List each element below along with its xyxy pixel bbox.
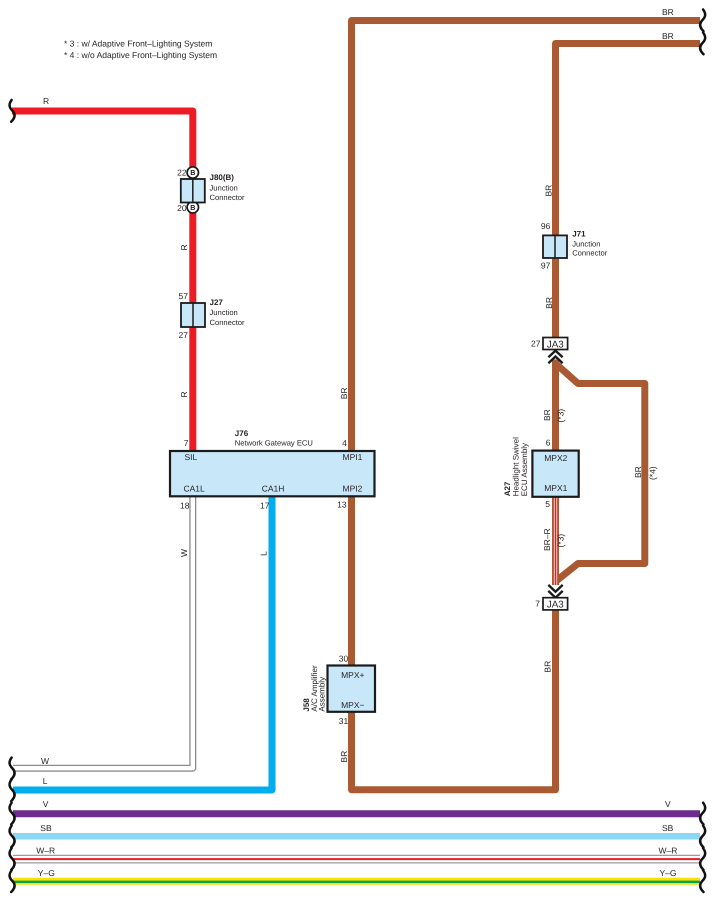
- svg-text:Assembly: Assembly: [318, 677, 327, 712]
- svg-text:SB: SB: [40, 823, 52, 833]
- svg-text:Y–G: Y–G: [660, 868, 677, 878]
- label L horizontal: [43, 776, 48, 786]
- label R vertical upper: [179, 244, 189, 250]
- ECU J58 A/C Amplifier: [302, 654, 375, 726]
- svg-text:W: W: [41, 756, 49, 766]
- svg-text:V: V: [665, 799, 671, 809]
- svg-text:(*3): (*3): [555, 534, 565, 548]
- svg-text:7: 7: [535, 599, 540, 609]
- junction connector J71: [541, 221, 608, 270]
- wire W-R bus: [13, 855, 700, 864]
- svg-text:18: 18: [180, 500, 190, 510]
- svg-text:6: 6: [546, 438, 551, 448]
- label L vertical: [259, 551, 269, 556]
- continuation mark W-R left: [10, 848, 15, 870]
- svg-text:W–R: W–R: [659, 845, 678, 855]
- continuation mark W-R right: [700, 848, 705, 870]
- label BR top 1: [662, 7, 674, 17]
- svg-text:W–R: W–R: [36, 845, 55, 855]
- svg-text:Y–G: Y–G: [38, 868, 55, 878]
- svg-text:V: V: [43, 799, 49, 809]
- footnote 4: [64, 50, 217, 60]
- svg-text:BR: BR: [543, 661, 553, 673]
- wire SB bus: [13, 833, 700, 840]
- svg-text:(*4): (*4): [647, 466, 657, 480]
- svg-text:27: 27: [179, 330, 189, 340]
- svg-text:MPI2: MPI2: [343, 483, 363, 493]
- continuation mark SB left: [10, 826, 15, 848]
- label (*3) above A27: [555, 409, 565, 423]
- svg-text:R: R: [179, 244, 189, 250]
- label V right: [665, 799, 671, 809]
- continuation mark BR2 right: [700, 33, 705, 55]
- continuation mark Y-G left: [10, 870, 15, 892]
- svg-text:BR: BR: [662, 7, 674, 17]
- svg-text:BR: BR: [544, 297, 554, 309]
- label BR on MPI1 wire: [339, 387, 349, 399]
- junction connector J27: [179, 291, 245, 340]
- wire BR to J71: [556, 44, 701, 237]
- connector JA3 lower: [535, 598, 567, 611]
- svg-text:BR–R: BR–R: [542, 528, 552, 551]
- ECU A27 Headlight Swivel: [503, 437, 579, 509]
- svg-text:17: 17: [260, 500, 270, 510]
- label BR loop: [633, 466, 643, 478]
- svg-text:BR: BR: [543, 185, 553, 197]
- svg-text:27: 27: [531, 339, 541, 349]
- wire Y-G bus: [13, 878, 700, 886]
- continuation mark V left: [10, 803, 15, 825]
- svg-text:J76: J76: [235, 429, 249, 438]
- svg-text:MPX−: MPX−: [341, 700, 364, 710]
- svg-text:J27: J27: [210, 298, 224, 307]
- wire BR JA3 to A27 MPX2: [552, 360, 559, 498]
- svg-text:* 3 : w/ Adaptive Front–Lighti: * 3 : w/ Adaptive Front–Lighting System: [64, 39, 212, 49]
- svg-text:97: 97: [541, 261, 551, 271]
- label (*4) loop: [647, 466, 657, 480]
- continuation mark SB right: [700, 826, 705, 848]
- svg-text:JA3: JA3: [547, 600, 564, 611]
- svg-text:22: 22: [177, 168, 187, 178]
- svg-text:13: 13: [337, 500, 347, 510]
- label R horizontal: [43, 96, 49, 106]
- label Y-G left: [38, 868, 55, 878]
- svg-text:96: 96: [541, 221, 551, 231]
- continuation mark R left: [10, 100, 15, 122]
- label R vertical lower: [179, 391, 189, 397]
- continuation mark L left: [10, 779, 15, 801]
- svg-text:Junction: Junction: [210, 308, 238, 317]
- label BR top 2: [662, 31, 674, 41]
- svg-text:BR: BR: [662, 31, 674, 41]
- svg-text:SIL: SIL: [185, 452, 198, 462]
- continuation mark W left: [10, 758, 15, 780]
- arrow chevrons down to JA3: [548, 585, 562, 598]
- svg-text:Connector: Connector: [210, 318, 246, 327]
- svg-text:Network Gateway ECU: Network Gateway ECU: [235, 439, 313, 448]
- svg-text:L: L: [43, 776, 48, 786]
- svg-text:ECU Assembly: ECU Assembly: [520, 443, 529, 496]
- svg-text:BR: BR: [633, 466, 643, 478]
- svg-text:BR: BR: [339, 751, 349, 763]
- svg-text:7: 7: [184, 438, 189, 448]
- svg-text:5: 5: [545, 499, 550, 509]
- svg-text:30: 30: [339, 654, 349, 664]
- svg-text:MPX+: MPX+: [341, 670, 364, 680]
- label BR below J58: [339, 751, 349, 763]
- label BR-R below A27: [542, 528, 552, 551]
- label BR above J71: [543, 185, 553, 197]
- label BR above A27: [542, 409, 552, 421]
- svg-text:57: 57: [179, 291, 189, 301]
- wire W CA1L: [13, 497, 193, 769]
- svg-text:J71: J71: [572, 229, 586, 238]
- svg-text:Junction: Junction: [572, 240, 600, 249]
- svg-text:MPX2: MPX2: [544, 453, 567, 463]
- label Y-G right: [660, 868, 677, 878]
- svg-text:20: 20: [177, 203, 187, 213]
- label W vertical: [179, 549, 189, 557]
- label (*3) below A27: [555, 534, 565, 548]
- label V left: [43, 799, 49, 809]
- wire BR MPI2 to J58: [348, 497, 355, 666]
- label SB left: [40, 823, 52, 833]
- label W horizontal: [41, 756, 49, 766]
- svg-text:SB: SB: [662, 823, 674, 833]
- svg-text:CA1H: CA1H: [262, 483, 285, 493]
- svg-text:MPX1: MPX1: [544, 483, 567, 493]
- svg-text:(*3): (*3): [555, 409, 565, 423]
- label W-R right: [659, 845, 678, 855]
- wire BR loop bypass: [556, 364, 645, 582]
- wire BR to MPI1: [352, 21, 701, 452]
- svg-text:MPI1: MPI1: [343, 452, 363, 462]
- svg-text:CA1L: CA1L: [184, 483, 206, 493]
- wire BR J71 to JA3: [552, 257, 559, 338]
- svg-text:R: R: [43, 96, 49, 106]
- arrow chevrons up to JA3: [548, 349, 562, 363]
- label SB right: [662, 823, 674, 833]
- svg-text:BR: BR: [339, 387, 349, 399]
- wire R main: [12, 111, 193, 451]
- wire V bus: [13, 810, 700, 817]
- svg-text:31: 31: [339, 716, 349, 726]
- svg-text:L: L: [259, 551, 269, 556]
- svg-text:W: W: [179, 549, 189, 557]
- svg-text:Junction: Junction: [210, 183, 238, 192]
- ECU J76 Network Gateway: [170, 429, 375, 510]
- connector JA3 upper: [531, 338, 568, 351]
- svg-text:R: R: [179, 391, 189, 397]
- wire L CA1H: [13, 497, 272, 791]
- svg-text:B: B: [190, 203, 195, 212]
- wire BR JA3 to J58 loop bottom: [352, 610, 556, 790]
- junction connector J80(B): [177, 167, 245, 213]
- svg-text:4: 4: [342, 438, 347, 448]
- continuation mark BR1 right: [700, 10, 705, 32]
- label W-R left: [36, 845, 55, 855]
- continuation mark V right: [700, 803, 705, 825]
- svg-text:* 4 : w/o Adaptive Front–Light: * 4 : w/o Adaptive Front–Lighting System: [64, 50, 217, 60]
- svg-text:JA3: JA3: [547, 339, 564, 350]
- svg-text:B: B: [190, 168, 195, 177]
- svg-text:BR: BR: [542, 409, 552, 421]
- label BR below lower JA3: [543, 661, 553, 673]
- svg-text:J80(B): J80(B): [210, 173, 235, 182]
- wire BR-R A27 MPX1 to JA3: [552, 497, 559, 585]
- svg-text:Connector: Connector: [572, 249, 608, 258]
- footnote 3: [64, 39, 212, 49]
- continuation mark Y-G right: [700, 870, 705, 892]
- label BR J71-JA3: [544, 297, 554, 309]
- svg-text:Connector: Connector: [210, 193, 246, 202]
